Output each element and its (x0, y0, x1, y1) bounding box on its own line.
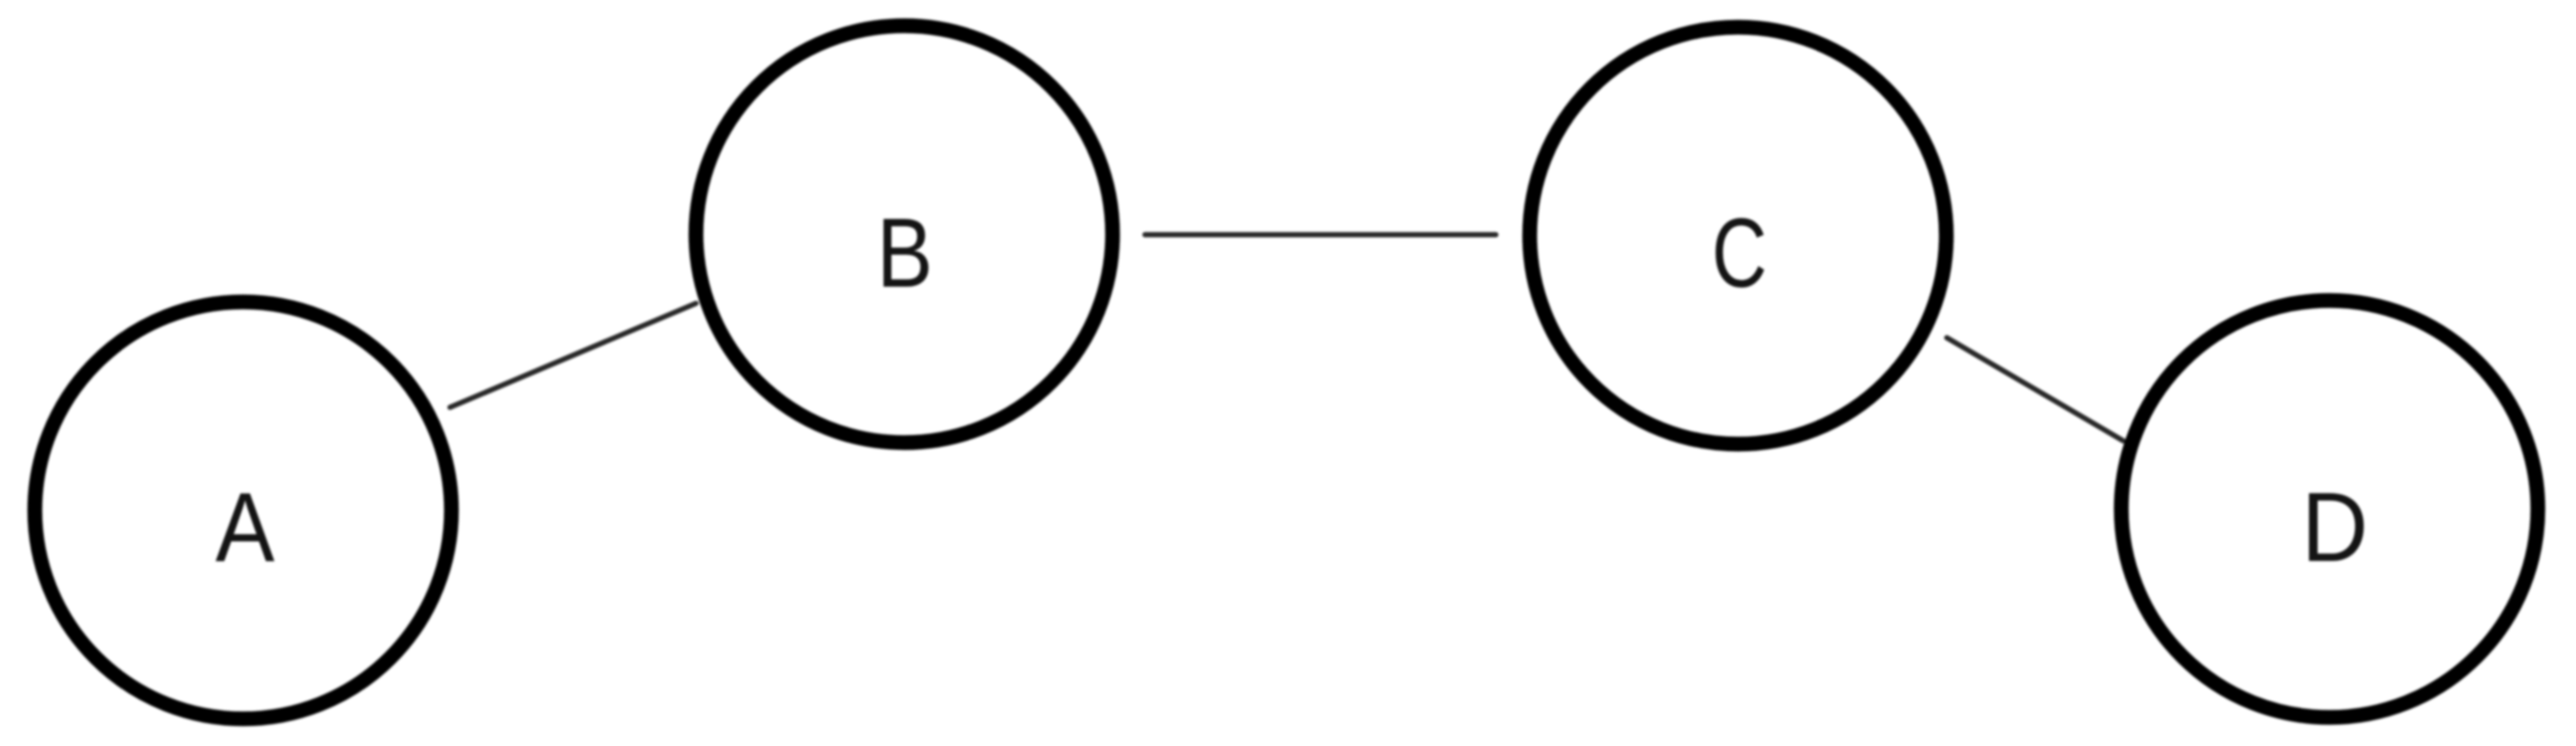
svg-text:A: A (215, 473, 275, 583)
wire A-B (450, 303, 696, 407)
svg-text:C: C (1712, 198, 1768, 308)
svg-text:B: B (877, 198, 933, 308)
node B (696, 26, 1113, 443)
node D (2121, 300, 2538, 717)
node A (35, 302, 452, 719)
wire C-D (1947, 338, 2123, 441)
node C (1530, 28, 1947, 445)
svg-text:D: D (2301, 472, 2368, 582)
wire B-C (1145, 232, 1496, 238)
